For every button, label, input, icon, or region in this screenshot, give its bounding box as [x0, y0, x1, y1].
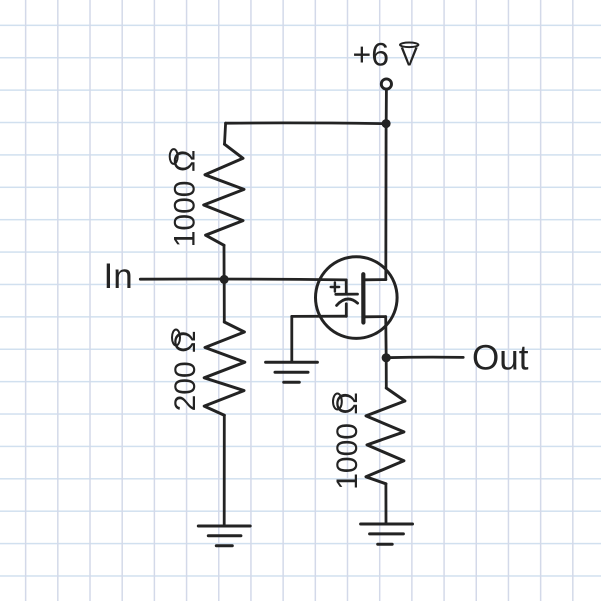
- label R3 ohm-loop decoration: [333, 394, 342, 410]
- wire out node to Out label: [386, 356, 463, 359]
- label R1 value 1000 ohm: [169, 150, 202, 248]
- wire R2 bottom to ground: [223, 415, 226, 526]
- wire In to gate: [140, 278, 346, 282]
- ground (left): [198, 526, 250, 546]
- svg-text:1000 Ω: 1000 Ω: [331, 392, 364, 490]
- transistor Q1 drain stub: [365, 278, 386, 281]
- transistor Q1 plus sign: [331, 282, 340, 291]
- wire In node down to R2: [223, 280, 226, 323]
- wire terminal to top node: [385, 90, 388, 120]
- wire top rail: [226, 121, 387, 125]
- node Out junction dot: [382, 353, 391, 362]
- transistor Q1 MOSFET body circle: [316, 257, 398, 339]
- label R1 ohm-loop decoration: [170, 149, 178, 164]
- label +6V supply: [353, 37, 419, 73]
- transistor Q1 gate plate (straight): [336, 293, 358, 296]
- wire drain up to top node: [384, 124, 387, 280]
- wire bulk to left: [292, 315, 347, 318]
- transistor Q1 gate plate (curved): [337, 299, 358, 305]
- svg-text:+6: +6: [353, 37, 389, 73]
- label R3 value 1000 ohm: [331, 392, 364, 490]
- svg-text:Out: Out: [472, 338, 529, 377]
- wire bulk down to ground: [290, 316, 293, 362]
- label R2 value 200 ohm: [169, 331, 202, 412]
- transistor Q1 source stub: [365, 315, 386, 318]
- ground (bulk): [266, 362, 318, 382]
- svg-text:In: In: [104, 257, 133, 296]
- label Out: [472, 338, 529, 377]
- wire top-left corner down to R1: [225, 123, 226, 144]
- resistor R1 1000 ohm (upper left): [204, 144, 244, 245]
- wire R1 bottom to In node: [223, 245, 226, 279]
- supply terminal decoration ellipse over V: [400, 43, 418, 48]
- transistor Q1 bulk lead vertical: [345, 304, 348, 316]
- resistor R3 1000 ohm (lower right): [366, 388, 405, 484]
- node top junction dot: [382, 119, 391, 128]
- transistor Q1 gate lead vertical: [345, 280, 348, 294]
- ground (right): [361, 524, 413, 544]
- wire source down to out node: [384, 317, 387, 358]
- wire out node down to R3: [385, 358, 388, 388]
- node In junction dot: [220, 275, 229, 284]
- label R2 ohm-loop decoration: [172, 330, 180, 346]
- supply terminal (open circle): [381, 79, 391, 89]
- transistor Q1 channel bar: [361, 274, 365, 322]
- label In: [104, 257, 133, 296]
- wire R3 bottom to ground: [384, 484, 387, 524]
- resistor R2 200 ohm (lower left): [204, 322, 245, 415]
